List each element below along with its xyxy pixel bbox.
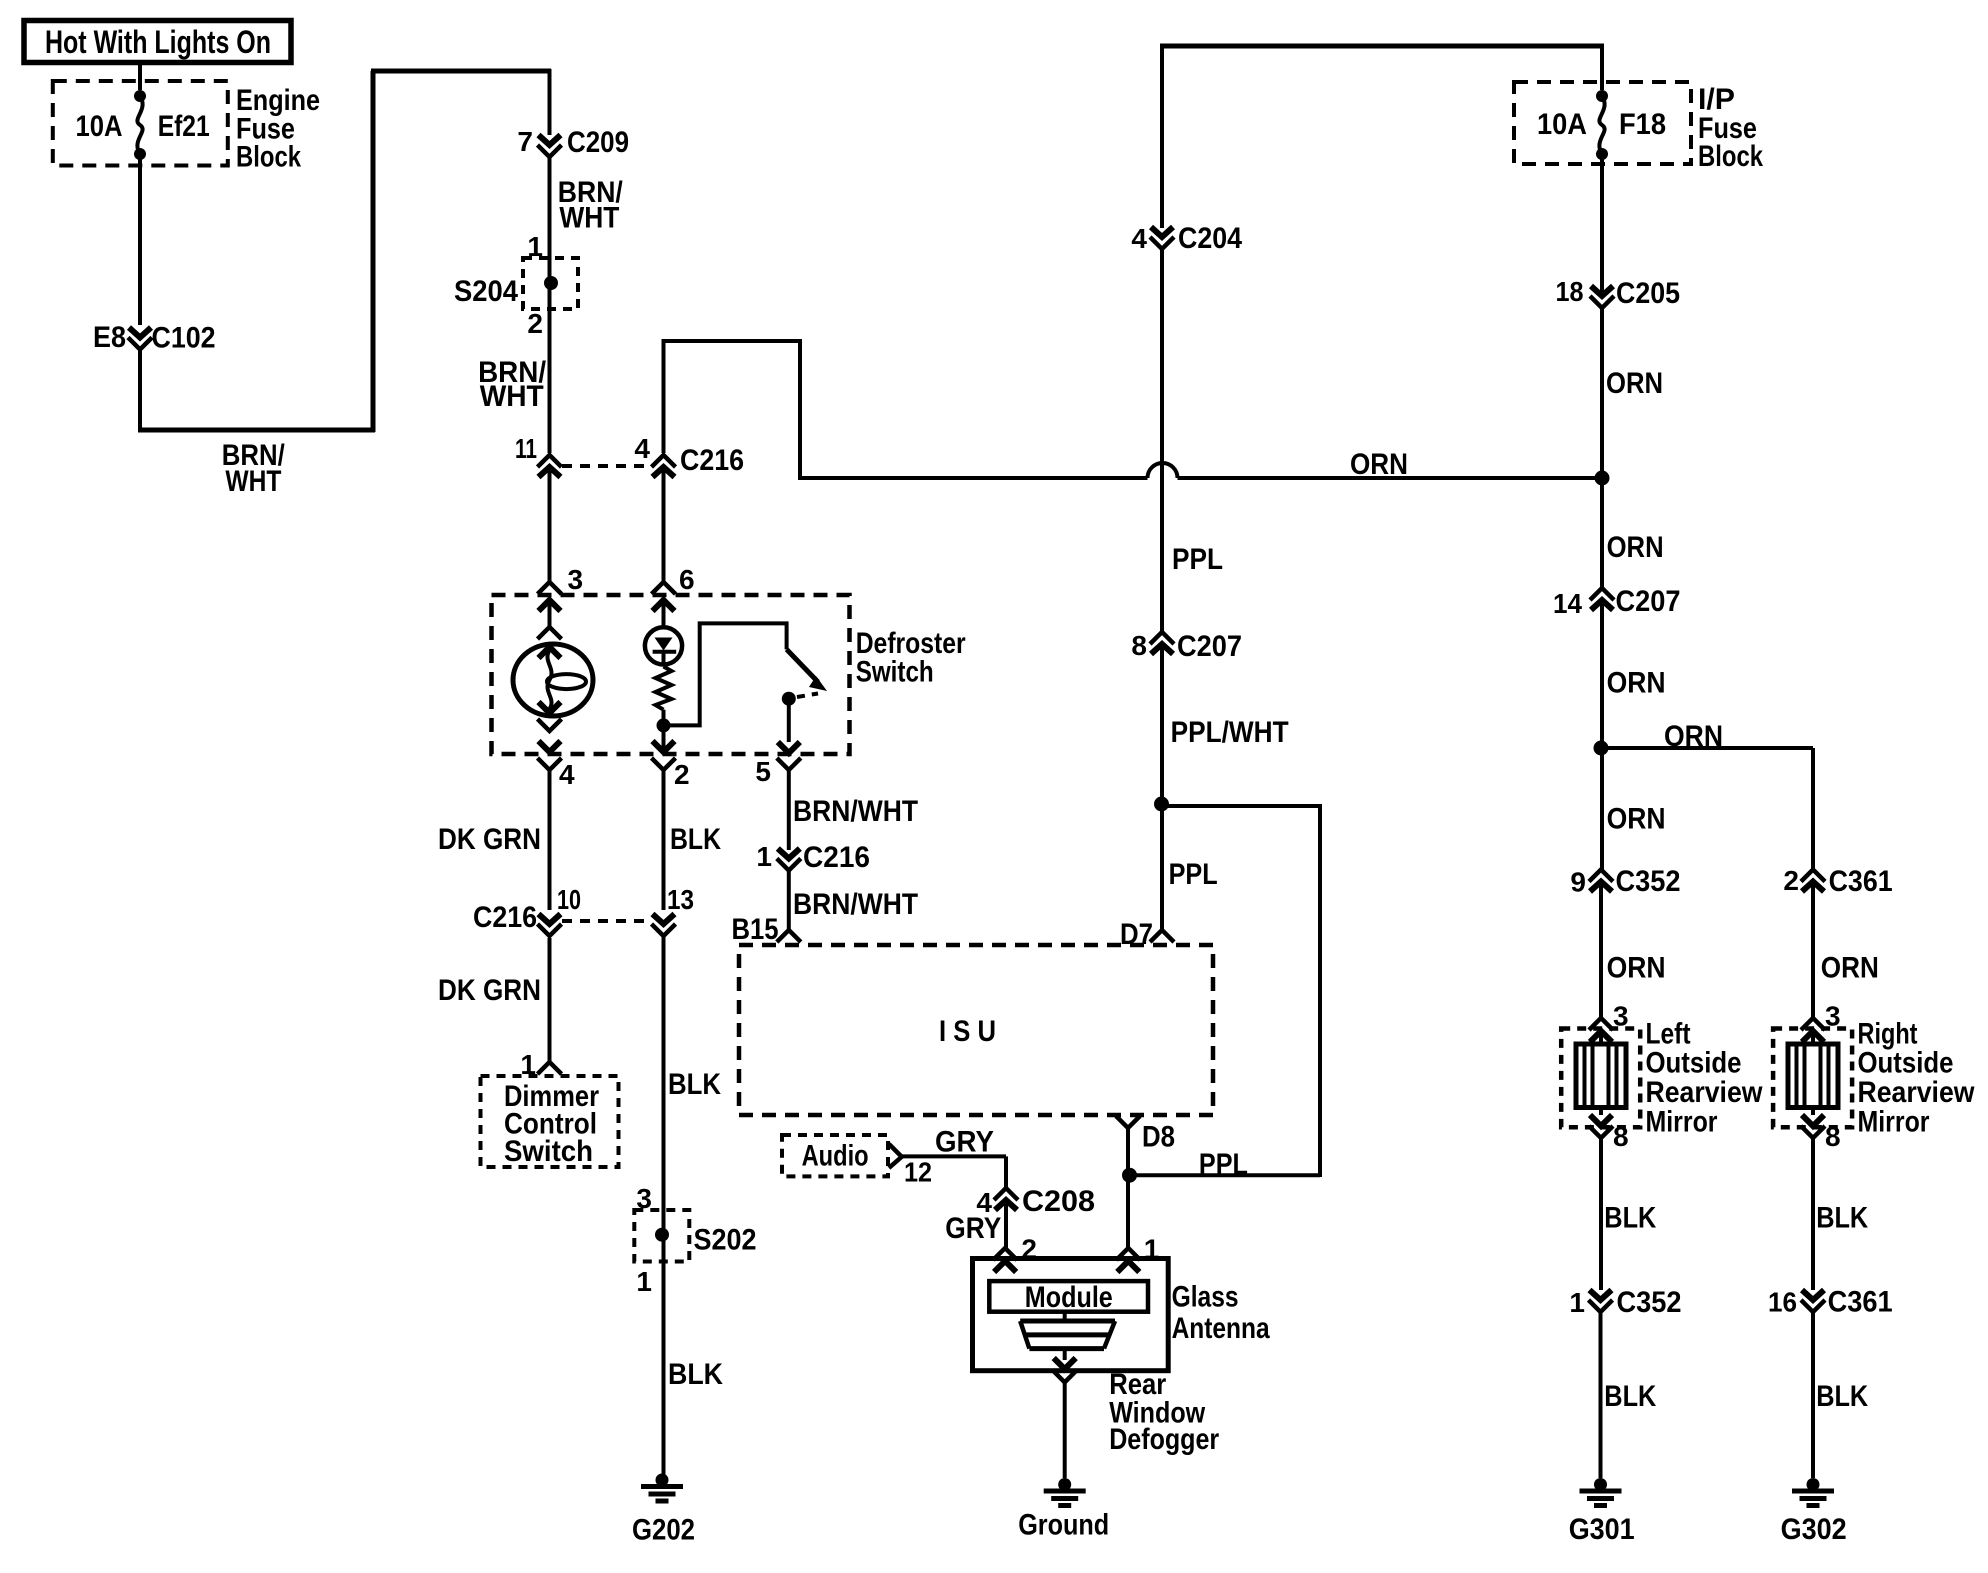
svg-text:BRN/WHT: BRN/WHT [793, 888, 918, 921]
svg-text:Rearview: Rearview [1858, 1076, 1976, 1109]
svg-text:C208: C208 [1022, 1185, 1095, 1218]
svg-text:11: 11 [515, 433, 537, 464]
svg-text:2: 2 [1783, 865, 1799, 896]
svg-text:PPL: PPL [1169, 858, 1218, 891]
svg-text:C361: C361 [1829, 865, 1893, 898]
svg-text:Antenna: Antenna [1172, 1312, 1270, 1345]
svg-text:Block: Block [1698, 140, 1763, 173]
svg-text:Audio: Audio [802, 1139, 869, 1172]
svg-text:PPL/WHT: PPL/WHT [1171, 716, 1289, 749]
svg-text:8: 8 [1825, 1121, 1841, 1152]
svg-text:C352: C352 [1617, 1286, 1682, 1319]
svg-text:I S U: I S U [939, 1015, 996, 1048]
svg-text:ORN: ORN [1664, 720, 1723, 753]
svg-text:BRN/WHT: BRN/WHT [793, 795, 918, 828]
svg-text:C352: C352 [1616, 865, 1681, 898]
svg-text:6: 6 [679, 564, 695, 595]
svg-text:DK GRN: DK GRN [438, 974, 541, 1007]
svg-text:PPL: PPL [1199, 1148, 1248, 1181]
svg-text:C216: C216 [473, 901, 537, 934]
svg-text:1: 1 [756, 841, 772, 872]
svg-text:ORN: ORN [1607, 952, 1666, 985]
svg-text:Switch: Switch [856, 655, 934, 688]
svg-text:Switch: Switch [504, 1135, 593, 1168]
svg-text:Rearview: Rearview [1646, 1076, 1764, 1109]
svg-text:3: 3 [568, 564, 584, 595]
svg-text:C204: C204 [1178, 222, 1242, 255]
svg-text:C216: C216 [680, 444, 744, 477]
svg-text:C207: C207 [1177, 630, 1242, 663]
svg-text:D8: D8 [1142, 1121, 1175, 1154]
svg-text:7: 7 [517, 126, 533, 157]
svg-text:4: 4 [1131, 223, 1147, 254]
svg-text:18: 18 [1556, 276, 1584, 307]
svg-text:GRY: GRY [935, 1126, 994, 1159]
svg-text:Block: Block [236, 140, 301, 173]
svg-text:9: 9 [1570, 867, 1586, 898]
svg-text:G301: G301 [1569, 1513, 1635, 1546]
svg-text:PPL: PPL [1172, 543, 1223, 576]
svg-text:2: 2 [527, 308, 543, 339]
svg-text:ORN: ORN [1607, 531, 1664, 564]
svg-text:ORN: ORN [1350, 448, 1408, 481]
svg-text:WHT: WHT [559, 202, 619, 235]
svg-text:G302: G302 [1781, 1513, 1847, 1546]
svg-text:BLK: BLK [1816, 1380, 1868, 1413]
svg-text:BLK: BLK [1604, 1380, 1656, 1413]
svg-text:10A: 10A [76, 110, 123, 143]
svg-text:Defogger: Defogger [1109, 1423, 1219, 1456]
svg-text:C205: C205 [1616, 277, 1680, 310]
svg-text:Module: Module [1025, 1281, 1113, 1314]
svg-text:WHT: WHT [225, 465, 281, 498]
svg-text:BLK: BLK [668, 1358, 723, 1391]
svg-text:GRY: GRY [945, 1212, 1001, 1245]
svg-text:ORN: ORN [1606, 367, 1663, 400]
svg-text:Glass: Glass [1172, 1281, 1239, 1314]
svg-text:Outside: Outside [1858, 1047, 1954, 1080]
svg-text:BLK: BLK [668, 1068, 721, 1101]
svg-text:Hot With Lights On: Hot With Lights On [45, 24, 271, 60]
svg-text:D7: D7 [1120, 918, 1153, 951]
svg-text:Ground: Ground [1018, 1508, 1109, 1541]
svg-text:Ef21: Ef21 [158, 110, 210, 143]
svg-text:S202: S202 [694, 1224, 757, 1257]
svg-text:2: 2 [674, 759, 690, 790]
svg-text:12: 12 [904, 1157, 932, 1188]
svg-text:ORN: ORN [1607, 803, 1666, 836]
svg-text:8: 8 [1131, 630, 1147, 661]
svg-text:ORN: ORN [1607, 667, 1666, 700]
svg-text:C216: C216 [803, 841, 870, 874]
svg-text:C209: C209 [567, 126, 629, 159]
svg-text:Outside: Outside [1646, 1047, 1742, 1080]
svg-text:Left: Left [1646, 1017, 1691, 1050]
svg-text:C207: C207 [1616, 585, 1681, 618]
svg-text:BLK: BLK [670, 823, 721, 856]
svg-text:C361: C361 [1828, 1286, 1893, 1319]
svg-text:BLK: BLK [1816, 1202, 1868, 1235]
svg-text:E8: E8 [93, 321, 126, 354]
svg-text:Mirror: Mirror [1646, 1105, 1718, 1138]
svg-text:8: 8 [1613, 1121, 1629, 1152]
svg-text:16: 16 [1768, 1287, 1797, 1318]
svg-text:5: 5 [755, 756, 771, 787]
svg-text:ORN: ORN [1821, 952, 1879, 985]
svg-text:G202: G202 [632, 1514, 695, 1547]
svg-text:C102: C102 [152, 322, 216, 355]
svg-text:13: 13 [667, 884, 694, 915]
svg-text:WHT: WHT [480, 380, 544, 413]
svg-text:B15: B15 [732, 913, 779, 946]
svg-text:F18: F18 [1619, 108, 1666, 141]
svg-text:Right: Right [1858, 1017, 1918, 1050]
svg-text:1: 1 [1569, 1287, 1585, 1318]
svg-text:1: 1 [636, 1266, 652, 1297]
svg-text:4: 4 [634, 433, 650, 464]
svg-text:10: 10 [557, 884, 581, 915]
svg-text:10A: 10A [1537, 108, 1587, 141]
svg-text:BLK: BLK [1604, 1202, 1656, 1235]
svg-text:14: 14 [1553, 588, 1582, 619]
svg-text:Mirror: Mirror [1858, 1105, 1930, 1138]
svg-text:S204: S204 [454, 275, 518, 308]
svg-text:4: 4 [559, 759, 575, 790]
svg-text:DK GRN: DK GRN [438, 823, 541, 856]
